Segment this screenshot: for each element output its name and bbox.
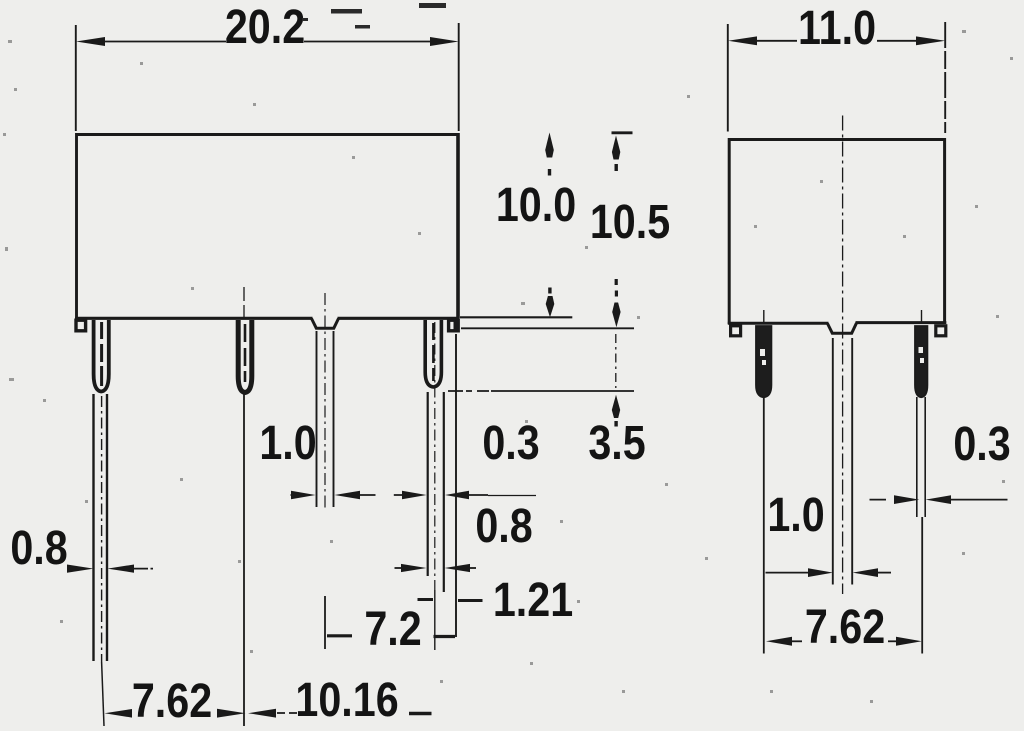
relay body outline right view <box>729 140 944 325</box>
arrowhead 20.2 right <box>430 37 459 46</box>
pin B (center) lines right view <box>833 338 852 585</box>
pin 1 outer shank <box>94 320 109 392</box>
text 0.3 right view <box>953 417 1010 471</box>
svg-text:11.0: 11.0 <box>798 1 876 55</box>
dimension 10.0 down arrow <box>548 288 551 294</box>
pin 4 centerline extension <box>434 590 436 650</box>
text 10.0 <box>496 178 576 232</box>
svg-text:1.21: 1.21 <box>493 573 573 627</box>
left foot right view <box>731 326 741 336</box>
text 0.3 left view <box>482 416 539 470</box>
svg-text:10.5: 10.5 <box>590 195 670 249</box>
dimension line 11.0 <box>754 40 919 42</box>
arrowhead 20.2 left <box>76 37 105 46</box>
extension line left of 11.0 <box>727 24 729 132</box>
text 20.2 <box>225 0 305 54</box>
centerline dashes between 10.5 and 3.5 <box>615 334 617 388</box>
pin 1 lower lines <box>94 394 108 661</box>
text 7.2 <box>364 602 421 656</box>
arrowhead 11.0 right <box>916 36 945 45</box>
svg-text:0.8: 0.8 <box>475 499 532 553</box>
svg-text:7.2: 7.2 <box>364 602 421 656</box>
relay body outline left view <box>77 135 458 319</box>
dimension 7.62 right view arrows <box>766 637 792 646</box>
left mounting foot <box>76 320 86 331</box>
pin 3 centerline <box>324 293 326 511</box>
pin 2 center dashes <box>244 324 247 382</box>
right mounting foot <box>449 320 459 331</box>
pin C (right) right view: dark shank <box>915 326 927 397</box>
text 7.62 right view <box>805 600 885 654</box>
text 7.62 left view <box>132 674 212 728</box>
dimension 1.21 ticks <box>418 598 434 601</box>
pin 2 outer shank <box>238 320 252 393</box>
pin speckles right view <box>760 347 924 365</box>
leader line L2 at seating plane <box>461 327 634 329</box>
dimension 1.0 right view: line and arrows <box>766 572 813 574</box>
pin 4 centerline <box>434 322 436 590</box>
text 0.8 pin 1 <box>10 521 67 575</box>
svg-text:10.16: 10.16 <box>295 673 398 727</box>
dimension 10.5 up arrow <box>612 136 620 160</box>
leader line L3 at pin shoulder level <box>448 390 489 392</box>
pin 4 lower lines <box>427 392 429 576</box>
dimension 0.8 pin 4: line and arrows <box>395 567 411 569</box>
svg-text:3.5: 3.5 <box>588 416 645 470</box>
dimension 0.3 pin 4: line and arrows <box>394 494 412 496</box>
case centerline right view <box>842 116 844 595</box>
pin A wire below <box>763 397 765 654</box>
notch at bottom center <box>312 319 339 329</box>
pin A (left) right view: dark shank <box>756 326 771 397</box>
pin 3 lines below notch <box>317 331 334 507</box>
pin A centerline stub <box>763 310 765 323</box>
text 1.0 right view <box>767 488 824 542</box>
pin 4 center dashes <box>432 323 435 381</box>
pin 2 centerline stub above case <box>243 287 245 320</box>
svg-text:7.62: 7.62 <box>805 600 885 654</box>
dimension line 20.2 <box>103 41 433 43</box>
right foot right view <box>936 326 946 336</box>
extension line right of 11.0 <box>944 22 946 133</box>
dimension 1.0 pin 3: line and arrows <box>291 494 305 496</box>
dimension 0.8 pin 1: line and arrows <box>68 568 81 570</box>
body bottom edge with notch right view <box>728 322 829 325</box>
dimension 10.5 top tick <box>612 131 633 134</box>
svg-text:0.8: 0.8 <box>10 521 67 575</box>
bottom dimension 10.16 arrows and dashes <box>248 709 276 718</box>
pin 4 outer shank <box>425 320 441 387</box>
text 1.0 left view <box>259 416 316 470</box>
dimension 0.3 right view: line and arrows <box>870 499 887 501</box>
pin 2 centerline extension to bottom <box>243 394 245 726</box>
svg-text:10.0: 10.0 <box>496 178 576 232</box>
extension line right of 20.2 <box>458 23 460 131</box>
extension line left of 20.2 <box>75 25 77 131</box>
svg-text:0.3: 0.3 <box>953 417 1010 471</box>
svg-text:1.0: 1.0 <box>259 416 316 470</box>
text 10.16 <box>295 673 398 727</box>
pin 1 center dark line <box>100 322 103 386</box>
text 11.0 <box>798 1 876 55</box>
scan noise marks <box>302 3 446 29</box>
dimension 7.2 dashes <box>327 634 352 637</box>
dimension 10.5 down arrow <box>615 279 618 285</box>
text 3.5 <box>588 416 645 470</box>
pin C centerline stub <box>921 310 923 323</box>
pin 1 centerline <box>101 396 103 662</box>
svg-text:0.3: 0.3 <box>482 416 539 470</box>
text 10.5 <box>590 195 670 249</box>
body bottom edge with notch <box>75 317 313 320</box>
svg-text:7.62: 7.62 <box>132 674 212 728</box>
notch right view <box>828 323 857 333</box>
text 0.8 pin 4 <box>475 499 532 553</box>
svg-text:1.0: 1.0 <box>767 488 824 542</box>
dimension 7.2 left extension <box>324 596 326 649</box>
pin 1 centerline extension to 7.62 <box>102 662 104 726</box>
dimension 3.5 up arrow <box>612 395 620 418</box>
bottom dimension 7.62 arrows <box>105 709 133 718</box>
dimension 10.0 up arrow <box>545 133 554 158</box>
text 1.21 <box>493 573 573 627</box>
pin C wires below <box>917 397 925 517</box>
extension line right of pin 4 (7.2 / 1.21 reference) <box>455 334 457 637</box>
arrowhead 11.0 left <box>728 36 757 45</box>
leader line L1 at case bottom level <box>460 316 572 318</box>
svg-text:20.2: 20.2 <box>225 0 305 54</box>
